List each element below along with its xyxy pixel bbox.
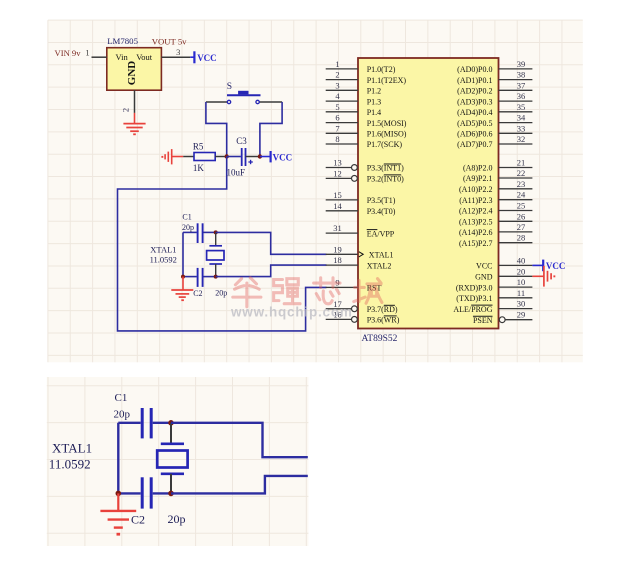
svg-text:P1.3: P1.3 [367, 97, 381, 106]
svg-text:P3.6(WR): P3.6(WR) [367, 316, 400, 325]
pin 13 (left) [326, 167, 352, 169]
pin 5 (left) [326, 111, 358, 113]
svg-text:2: 2 [120, 108, 130, 112]
wire pin 2 down [134, 90, 136, 113]
svg-text:(A12)P2.4: (A12)P2.4 [459, 207, 493, 216]
svg-text:(A9)P2.1: (A9)P2.1 [463, 174, 493, 183]
svg-text:P1.2: P1.2 [367, 87, 381, 96]
crystal XTAL1 symbol [215, 232, 217, 245]
svg-text:1: 1 [85, 48, 89, 58]
wire R5 to node [215, 156, 227, 158]
pin 10 (right) [499, 286, 533, 288]
switch S terminal stubs [206, 101, 228, 103]
svg-text:10: 10 [517, 277, 526, 287]
svg-text:(AD7)P0.7: (AD7)P0.7 [457, 140, 492, 149]
pin 21 (right) [499, 167, 533, 169]
svg-text:C1: C1 [182, 212, 191, 221]
(magnified view) junction top [168, 420, 174, 426]
svg-text:(TXD)P3.1: (TXD)P3.1 [456, 294, 492, 303]
svg-text:EA/VPP: EA/VPP [367, 229, 395, 238]
svg-text:7: 7 [335, 123, 339, 133]
svg-text:VCC: VCC [197, 53, 217, 63]
svg-text:C3: C3 [236, 136, 247, 146]
pin 4 (left) [326, 100, 358, 102]
pin 22 (right) [499, 177, 533, 179]
pin 20 (right) [499, 275, 533, 277]
svg-text:(A10)P2.2: (A10)P2.2 [459, 185, 493, 194]
wire blue stub to VCC bar [190, 56, 194, 58]
pin 11 (right) [499, 297, 533, 299]
svg-text:P1.7(SCK): P1.7(SCK) [367, 140, 403, 149]
pin 31 (left) [326, 232, 358, 234]
wire crystal left vertical [182, 232, 184, 276]
svg-text:VCC: VCC [476, 262, 492, 271]
voltage regulator U? LM7805 body [107, 48, 162, 90]
svg-text:XTAL1: XTAL1 [52, 440, 92, 455]
svg-text:XTAL1: XTAL1 [150, 245, 176, 255]
ground symbol (IC, rotated) [543, 266, 545, 287]
pin 26 (right) [499, 220, 533, 222]
svg-text:(AD3)P0.3: (AD3)P0.3 [457, 97, 492, 106]
svg-text:GND: GND [126, 61, 138, 86]
pin 27 (right) [499, 231, 533, 233]
schematic sheet background (main) [48, 20, 583, 362]
wire node to C3 [227, 156, 241, 158]
(magnified view) wire to C1 [118, 422, 140, 424]
svg-text:VIN 9v: VIN 9v [55, 48, 82, 58]
svg-text:18: 18 [333, 255, 342, 265]
svg-text:3: 3 [335, 80, 339, 90]
(magnified view) capacitor C1 [141, 408, 144, 438]
svg-text:Vout: Vout [136, 52, 153, 62]
pin 39 (right) [499, 68, 533, 70]
svg-text:29: 29 [517, 310, 526, 320]
(magnified view) crystal XTAL1 symbol [170, 423, 172, 444]
svg-text:P3.5(T1): P3.5(T1) [367, 196, 396, 205]
(magnified view) capacitor C2 [118, 492, 140, 494]
wire VIN input to pin 1 [92, 56, 107, 58]
svg-text:www.hqchip.com: www.hqchip.com [230, 305, 353, 320]
(magnified view) wire C1 to node [153, 422, 171, 424]
svg-text:XTAL2: XTAL2 [367, 261, 392, 270]
pin 38 (right) [499, 79, 533, 81]
resistor R5 [194, 153, 215, 161]
svg-text:23: 23 [517, 179, 526, 189]
svg-text:(A14)P2.6: (A14)P2.6 [459, 228, 493, 237]
svg-text:21: 21 [517, 158, 526, 168]
power symbol VCC (regulator output) [193, 51, 195, 63]
power symbol VCC (reset circuit) [270, 151, 272, 162]
ground symbol (left of R5, rotated) [171, 149, 173, 164]
svg-text:37: 37 [517, 80, 526, 90]
svg-text:(A13)P2.5: (A13)P2.5 [459, 218, 493, 227]
svg-text:ALE/PROG: ALE/PROG [453, 305, 492, 314]
svg-text:24: 24 [517, 190, 526, 200]
junction node C3/VCC/switch [258, 154, 262, 158]
pin 19 (left) [326, 253, 358, 255]
svg-text:(AD6)P0.6: (AD6)P0.6 [457, 130, 492, 139]
pin 17 (left) [326, 308, 352, 310]
svg-text:Vin: Vin [116, 52, 129, 62]
svg-text:22: 22 [517, 168, 526, 178]
svg-text:11: 11 [517, 288, 525, 298]
svg-text:34: 34 [517, 113, 526, 123]
pin 15 (left) [326, 199, 358, 201]
pin 33 (right) [499, 132, 533, 134]
pin 12 (left) [326, 177, 352, 179]
svg-text:8: 8 [335, 134, 339, 144]
wire node to pin 18 [216, 265, 327, 277]
svg-text:(A11)P2.3: (A11)P2.3 [459, 196, 492, 205]
wire RST net from node to pin 9 [118, 157, 327, 331]
svg-text:1K: 1K [193, 163, 205, 173]
svg-text:P1.6(MISO): P1.6(MISO) [367, 130, 407, 139]
pin 7 (left) [326, 132, 358, 134]
svg-text:30: 30 [517, 299, 526, 309]
svg-text:(RXD)P3.0: (RXD)P3.0 [456, 283, 493, 292]
svg-text:26: 26 [517, 211, 526, 221]
svg-text:13: 13 [333, 158, 342, 168]
svg-text:3: 3 [176, 47, 180, 57]
pin 24 (right) [499, 199, 533, 201]
(magnified view) wire top node to XTAL1 pin [171, 423, 308, 457]
svg-text:20p: 20p [215, 289, 227, 298]
svg-text:GND: GND [475, 273, 493, 282]
svg-text:20p: 20p [182, 223, 194, 232]
schematic sheet background (magnified crystal view) [47, 377, 309, 546]
pin 2 (left) [326, 79, 358, 81]
svg-text:P3.4(T0): P3.4(T0) [367, 207, 396, 216]
svg-text:35: 35 [517, 102, 526, 112]
svg-text:C2: C2 [131, 513, 145, 527]
svg-text:(AD5)P0.5: (AD5)P0.5 [457, 119, 492, 128]
pin 37 (right) [499, 89, 533, 91]
svg-text:PSEN: PSEN [473, 316, 493, 325]
svg-text:1: 1 [335, 59, 339, 69]
pin 40 (right) [499, 264, 533, 266]
svg-text:20p: 20p [114, 409, 131, 421]
svg-text:VCC: VCC [546, 261, 566, 271]
capacitor C1 [197, 223, 199, 243]
svg-text:6: 6 [335, 113, 339, 123]
watermark row1 (stylized CJK glyphs) [233, 278, 382, 307]
svg-text:XTAL1: XTAL1 [369, 251, 394, 260]
pin 16 (left) [326, 318, 352, 320]
switch S terminal circles [227, 100, 230, 103]
junction node XTAL bottom [214, 275, 218, 279]
svg-text:20p: 20p [168, 512, 186, 526]
wire to C1 [183, 231, 197, 233]
wire switch left branch [206, 102, 227, 157]
wire node to pin 19 [216, 232, 327, 254]
pin 30 (right) [499, 308, 533, 310]
pin 3 (left) [326, 89, 358, 91]
svg-text:33: 33 [517, 123, 526, 133]
svg-text:(A15)P2.7: (A15)P2.7 [459, 239, 493, 248]
svg-text:(A8)P2.0: (A8)P2.0 [463, 164, 493, 173]
pin 18 (left) [326, 264, 358, 266]
svg-text:P3.3(INT1): P3.3(INT1) [367, 164, 404, 173]
svg-text:P1.1(T2EX): P1.1(T2EX) [367, 76, 407, 85]
svg-text:(AD4)P0.4: (AD4)P0.4 [457, 108, 492, 117]
ground symbol (crystal) [182, 277, 184, 290]
svg-text:32: 32 [517, 134, 526, 144]
svg-text:28: 28 [517, 233, 526, 243]
pin 8 (left) [326, 143, 358, 145]
pin 36 (right) [499, 100, 533, 102]
pin 28 (right) [499, 242, 533, 244]
(magnified view) junction bottom [168, 491, 174, 497]
switch S actuator [238, 91, 248, 95]
svg-text:15: 15 [333, 190, 342, 200]
svg-text:39: 39 [517, 59, 526, 69]
wire pin 3 output [161, 56, 190, 58]
ground symbol (regulator) [134, 113, 136, 124]
svg-text:P1.0(T2): P1.0(T2) [367, 65, 396, 74]
svg-text:VCC: VCC [273, 152, 293, 162]
svg-text:LM7805: LM7805 [107, 36, 138, 46]
svg-text:20: 20 [517, 266, 526, 276]
switch S bar [227, 94, 261, 96]
pin 14 (left) [326, 210, 358, 212]
wire C1 to node [203, 231, 216, 233]
svg-text:11.0592: 11.0592 [49, 457, 91, 472]
svg-text:19: 19 [333, 244, 342, 254]
pin 34 (right) [499, 122, 533, 124]
wire C3 to node2 [246, 156, 260, 158]
svg-text:R5: R5 [193, 141, 204, 151]
pin 25 (right) [499, 210, 533, 212]
power symbol VCC (IC supply) [542, 260, 544, 272]
svg-text:P3.7(RD): P3.7(RD) [367, 305, 398, 314]
svg-text:P3.2(INT0): P3.2(INT0) [367, 175, 404, 184]
svg-text:14: 14 [333, 201, 342, 211]
wire pin 40 to VCC [532, 264, 543, 266]
junction node XTAL top [214, 230, 218, 234]
(magnified view) wire left vertical [117, 423, 119, 494]
svg-text:11.0592: 11.0592 [150, 254, 177, 264]
(magnified view) ground symbol [117, 493, 119, 511]
svg-text:31: 31 [333, 223, 342, 233]
wire pin 20 to ground [532, 275, 544, 277]
(magnified view) wire bottom node to XTAL2 pin [171, 476, 308, 494]
svg-text:P1.5(MOSI): P1.5(MOSI) [367, 119, 407, 128]
pin 32 (right) [499, 143, 533, 145]
pin 29 (right) [505, 319, 532, 321]
capacitor C2 [183, 276, 197, 278]
capacitor C3 [241, 148, 243, 166]
svg-text:12: 12 [333, 168, 342, 178]
svg-text:27: 27 [517, 222, 526, 232]
pin 9 (left) [326, 286, 358, 288]
pin 1 (left) [326, 68, 358, 70]
svg-text:40: 40 [517, 255, 526, 265]
svg-text:5: 5 [335, 102, 339, 112]
svg-text:(AD0)P0.0: (AD0)P0.0 [457, 65, 492, 74]
pin 35 (right) [499, 111, 533, 113]
pin 23 (right) [499, 188, 533, 190]
junction node R5/C3/switch [225, 154, 229, 158]
svg-text:(AD2)P0.2: (AD2)P0.2 [457, 87, 492, 96]
svg-text:S: S [227, 82, 232, 92]
microcontroller U? AT89S52 body [358, 58, 499, 329]
svg-text:P1.4: P1.4 [367, 108, 381, 117]
svg-text:10uF: 10uF [227, 167, 246, 177]
svg-text:(AD1)P0.1: (AD1)P0.1 [457, 76, 492, 85]
svg-text:36: 36 [517, 91, 526, 101]
svg-text:C1: C1 [115, 392, 128, 404]
junction node ground/C2 [181, 275, 185, 279]
wire ground to R5 [183, 156, 194, 158]
wire switch right branch [260, 102, 282, 157]
svg-text:C2: C2 [193, 289, 202, 298]
(magnified view) junction ground [116, 491, 122, 497]
wire node2 to VCC [260, 156, 270, 158]
svg-text:25: 25 [517, 201, 526, 211]
svg-text:AT89S52: AT89S52 [362, 334, 398, 344]
svg-text:2: 2 [335, 70, 339, 80]
svg-text:VOUT 5v: VOUT 5v [152, 37, 187, 47]
pin 6 (left) [326, 122, 358, 124]
svg-text:38: 38 [517, 70, 526, 80]
